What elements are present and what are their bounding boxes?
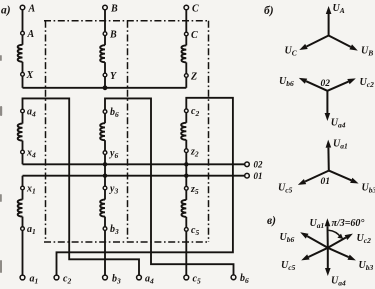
phasor U_c2 arrow (star): [328, 238, 346, 248]
junction y6-O2: [103, 162, 107, 166]
node z2: [184, 149, 188, 153]
wire: [185, 36, 187, 46]
wire: [185, 77, 187, 88]
svg-text:π/3=60°: π/3=60°: [332, 218, 365, 229]
node z5: [184, 186, 188, 190]
node x1: [21, 186, 25, 190]
terminal a1 (bottom): [20, 275, 25, 280]
svg-text:A: A: [28, 4, 36, 15]
svg-text:B: B: [110, 4, 118, 15]
wire: [104, 62, 106, 73]
wire: [104, 140, 106, 151]
wire: [104, 113, 106, 123]
node y6: [103, 151, 107, 155]
core limb 1: [45, 21, 47, 242]
core limb 3: [208, 21, 210, 242]
node a4: [21, 109, 25, 113]
wire: [185, 10, 187, 33]
svg-text:A: A: [27, 29, 35, 40]
wire: [22, 154, 24, 165]
phasor U_B arrow: [329, 36, 351, 47]
phasor U_b3 arrow (01): [329, 171, 352, 181]
wire: [185, 190, 187, 200]
winding B-Y coil: [100, 45, 105, 62]
wire: [104, 77, 106, 88]
junction z5-O1: [184, 174, 188, 178]
wire: [22, 62, 24, 73]
wire: [185, 152, 187, 186]
phasor U_b6 arrow (star): [307, 236, 328, 248]
wire: [22, 35, 24, 45]
winding z5-c5 coil: [181, 200, 186, 217]
wire a4 route: [23, 98, 140, 275]
terminal O1: [245, 173, 250, 178]
bus O2: [23, 163, 245, 165]
wire: [104, 154, 106, 186]
winding x1-a1 coil: [18, 200, 23, 217]
terminal A: [20, 5, 25, 10]
phasor U_A arrow: [328, 14, 330, 36]
wire: [22, 230, 24, 275]
svg-text:01: 01: [321, 177, 331, 187]
winding y3-b3 coil: [100, 200, 105, 217]
wire: [104, 10, 106, 32]
core top yoke: [44, 20, 209, 22]
core limb 2: [127, 21, 129, 242]
svg-text:а): а): [1, 5, 11, 17]
node B: [103, 32, 107, 36]
phasor U_b3 arrow (star): [328, 248, 349, 257]
wire: [104, 217, 106, 227]
svg-text:02: 02: [254, 160, 264, 170]
terminal b6 (bottom): [231, 275, 236, 280]
svg-text:Y: Y: [110, 71, 117, 82]
bus O1: [23, 175, 245, 177]
svg-text:б): б): [264, 5, 274, 17]
svg-text:C: C: [192, 4, 199, 15]
phasor U_a1 arrow (star): [327, 226, 329, 248]
terminal O2: [245, 162, 250, 167]
wire: [22, 113, 24, 124]
wire: [185, 217, 187, 228]
wire: [22, 190, 24, 200]
winding b6-y6 coil: [100, 123, 105, 140]
svg-text:01: 01: [254, 171, 263, 181]
angle arc: [329, 230, 341, 237]
terminal c5 (bottom): [184, 275, 189, 280]
node X: [21, 72, 25, 76]
junction z2-O2: [184, 162, 188, 166]
terminal c2 (bottom): [54, 275, 59, 280]
node A: [21, 31, 25, 35]
wire: [22, 176, 24, 187]
wire: [185, 231, 187, 275]
node Z: [184, 74, 188, 78]
terminal C: [184, 5, 189, 10]
phasor U_a4 arrow (02): [326, 91, 328, 113]
node x4: [21, 150, 25, 154]
phasor U_C arrow: [307, 36, 329, 47]
wire: [22, 217, 24, 227]
wire: [104, 190, 106, 200]
phasor U_c5 arrow (01): [305, 171, 329, 182]
winding a4-x4 coil: [18, 124, 23, 141]
wire c2 route: [57, 98, 233, 275]
wire: [22, 10, 24, 32]
junction Y-bus: [103, 85, 108, 90]
phasor U_c5 arrow (star): [308, 248, 327, 257]
neutral bus X-Y-Z: [23, 87, 187, 89]
terminal a4 (bottom): [137, 275, 142, 280]
node b6: [103, 110, 107, 114]
wire b6 route: [105, 98, 234, 275]
wire: [104, 35, 106, 45]
wire: [104, 230, 106, 275]
node y3: [103, 186, 107, 190]
phasor U_c2 arrow (02): [327, 82, 348, 91]
phasor U_b6 arrow (02): [306, 81, 327, 91]
svg-text:B: B: [109, 30, 117, 41]
terminal b3 (bottom): [103, 275, 108, 280]
svg-text:Z: Z: [190, 72, 197, 83]
node b3: [103, 227, 107, 231]
wire: [185, 113, 187, 123]
node C: [184, 32, 188, 36]
wire: [185, 62, 187, 73]
junction y3-O1: [103, 174, 107, 178]
scan artifact: [0, 55, 2, 273]
winding A-X coil: [18, 45, 23, 62]
wire: [185, 140, 187, 149]
node c2: [184, 109, 188, 113]
node a1: [21, 227, 25, 231]
wire: [22, 76, 24, 88]
svg-text:в): в): [267, 215, 276, 227]
winding c2-z2 coil: [181, 123, 186, 140]
phasor U_a4 arrow (star): [327, 248, 329, 268]
node Y: [103, 73, 107, 77]
node c5: [184, 228, 188, 232]
winding C-Z coil: [181, 45, 186, 62]
wire: [22, 141, 24, 151]
terminal B: [103, 5, 108, 10]
phasor U_a1 arrow (01): [327, 148, 329, 171]
core bottom yoke: [44, 241, 209, 243]
svg-text:C: C: [191, 30, 198, 41]
svg-text:02: 02: [321, 79, 331, 89]
svg-text:X: X: [26, 70, 34, 81]
